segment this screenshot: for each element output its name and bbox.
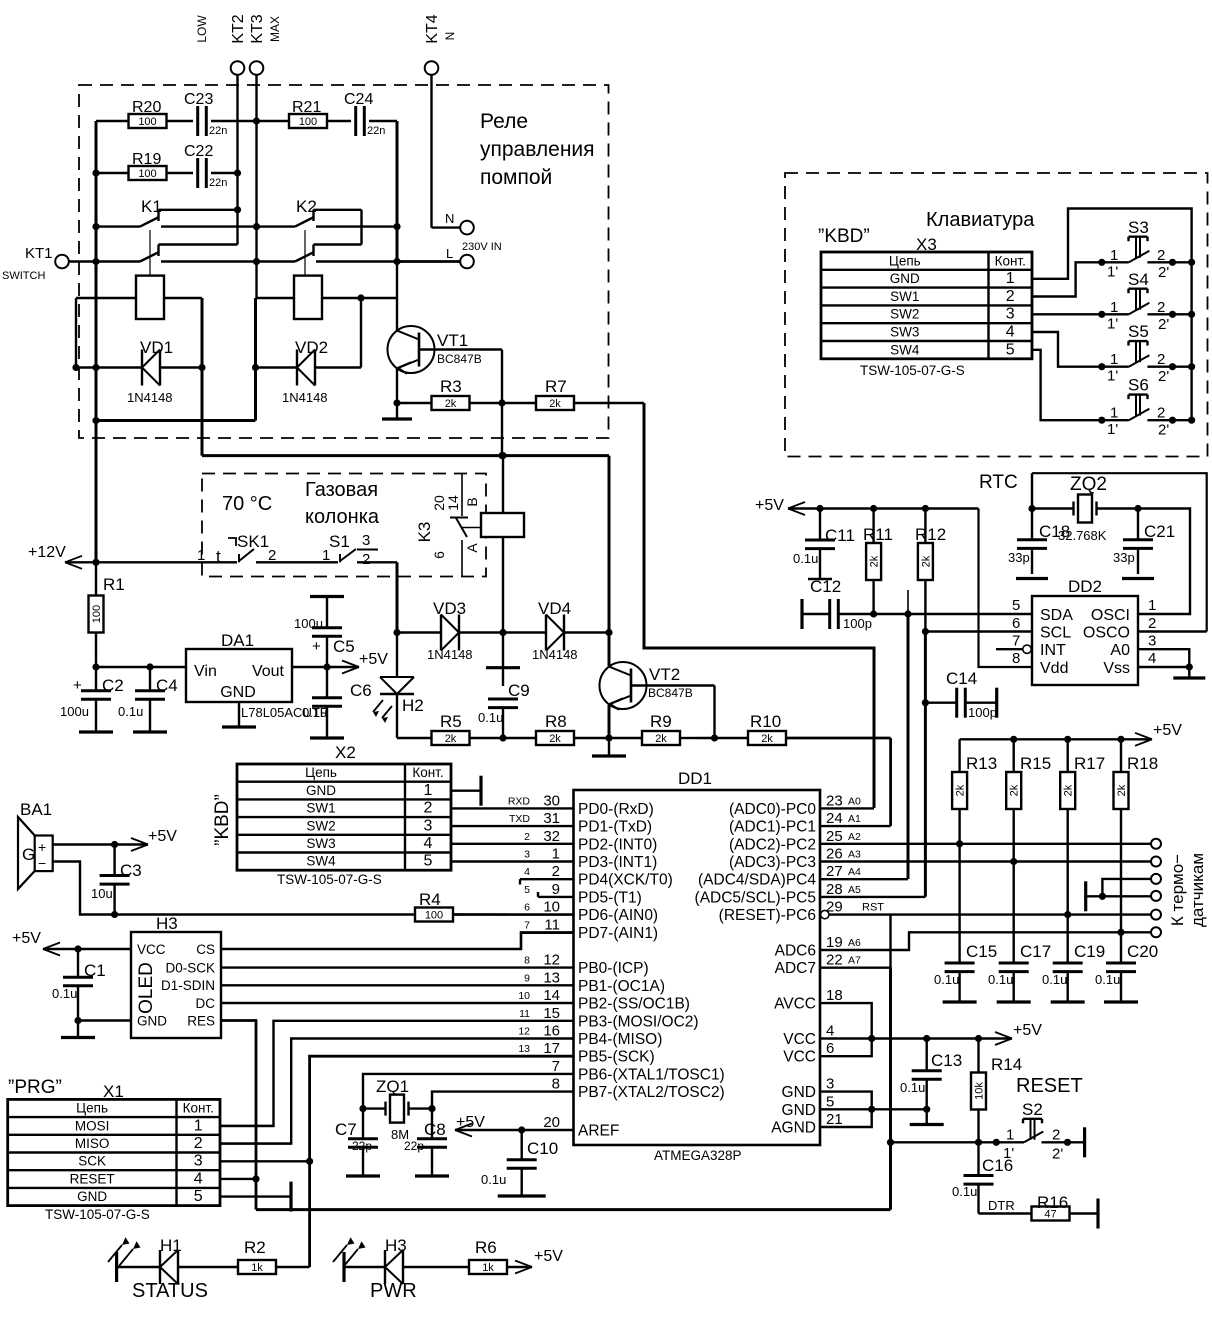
wire VD1 left	[75, 298, 77, 368]
mcu right pin labels	[695, 792, 885, 1136]
wire AREF row	[518, 1126, 573, 1133]
svg-text:PD7-(AIN1): PD7-(AIN1)	[578, 925, 658, 942]
capacitor C12	[802, 577, 874, 631]
wire Vin row	[96, 663, 186, 670]
relay contact K3	[415, 474, 481, 577]
svg-text:LOW: LOW	[195, 15, 209, 43]
capacitor C4	[118, 667, 178, 732]
svg-text:4: 4	[826, 1023, 834, 1040]
switch S6	[1098, 376, 1195, 439]
svg-text:25: 25	[826, 828, 843, 845]
led H3 pwr	[333, 1236, 468, 1302]
label KBD header	[818, 209, 1035, 254]
connector table X1	[8, 1099, 220, 1205]
svg-text:7: 7	[1012, 633, 1020, 650]
svg-text:колонка: колонка	[305, 506, 380, 528]
dd2 pin numbers	[1012, 597, 1156, 667]
label DTR	[988, 1198, 1015, 1213]
wire X3 pin4	[1032, 332, 1102, 367]
svg-text:Vdd: Vdd	[1040, 660, 1068, 677]
svg-text:C20: C20	[1127, 942, 1158, 961]
svg-text:PD5-(T1): PD5-(T1)	[578, 889, 642, 906]
svg-text:GND: GND	[782, 1084, 816, 1101]
svg-text:C19: C19	[1074, 942, 1105, 961]
svg-text:11: 11	[519, 1008, 530, 1020]
wire VT1 base bus	[498, 403, 505, 459]
wire Vout row	[292, 663, 331, 670]
resistor R8	[503, 712, 613, 745]
svg-text:A0: A0	[848, 795, 861, 807]
wire PB5 row	[306, 1056, 574, 1267]
resistor R17	[1060, 739, 1105, 963]
svg-text:KT1: KT1	[25, 245, 53, 262]
svg-text:H1: H1	[160, 1236, 182, 1255]
svg-text:D0-SCK: D0-SCK	[165, 961, 215, 976]
svg-text:20: 20	[543, 1114, 560, 1131]
resistor R18	[1114, 739, 1159, 963]
svg-text:31: 31	[543, 810, 560, 827]
svg-text:3: 3	[826, 1076, 834, 1093]
svg-text:1: 1	[1110, 405, 1118, 422]
switch S4	[1098, 270, 1195, 333]
svg-text:N: N	[445, 211, 454, 226]
svg-text:2: 2	[1148, 615, 1156, 632]
svg-text:(ADC3)-PC3: (ADC3)-PC3	[729, 854, 816, 871]
svg-text:A6: A6	[848, 937, 861, 949]
svg-text:11: 11	[544, 916, 560, 933]
wire X1 mosi	[220, 1125, 274, 1127]
mcu left pin labels	[508, 792, 725, 1139]
svg-text:GND: GND	[77, 1189, 107, 1204]
svg-text:S6: S6	[1128, 376, 1149, 395]
svg-text:0.1u: 0.1u	[302, 705, 327, 720]
capacitor C2	[60, 667, 124, 732]
wire GND bracket	[820, 1092, 875, 1127]
svg-text:PD2-(INT0): PD2-(INT0)	[578, 836, 657, 853]
svg-text:C6: C6	[350, 681, 372, 700]
svg-text:5: 5	[826, 1093, 834, 1110]
svg-text:1: 1	[194, 1117, 203, 1134]
svg-text:R4: R4	[419, 890, 441, 909]
capacitor C6	[302, 667, 372, 738]
wire speaker row	[115, 913, 415, 915]
svg-text:CS: CS	[196, 942, 215, 957]
connector table X2	[237, 764, 451, 870]
terminal KT4	[424, 14, 457, 75]
svg-text:+5V: +5V	[755, 497, 784, 514]
power flag +5V oled	[12, 930, 131, 956]
label gas column	[222, 479, 380, 528]
transistor VT1	[388, 298, 506, 407]
svg-text:BC847B: BC847B	[648, 686, 693, 700]
svg-text:3: 3	[424, 817, 433, 834]
svg-text:26: 26	[826, 846, 843, 863]
svg-text:R7: R7	[545, 377, 567, 396]
wire PB3 row	[220, 1021, 574, 1126]
svg-text:2: 2	[1157, 299, 1165, 316]
svg-text:2: 2	[1006, 288, 1015, 305]
svg-text:S5: S5	[1128, 322, 1149, 341]
svg-text:SW3: SW3	[890, 325, 919, 340]
svg-text:R5: R5	[440, 712, 462, 731]
svg-text:22n: 22n	[367, 125, 385, 137]
svg-text:L: L	[446, 246, 453, 261]
svg-text:100: 100	[138, 168, 156, 180]
power flag +5V pullups	[960, 722, 1183, 746]
svg-text:Реле: Реле	[480, 110, 528, 133]
capacitor C13	[900, 1039, 962, 1113]
svg-text:KT4: KT4	[424, 14, 441, 43]
wire xtal right	[1097, 505, 1191, 614]
svg-text:1: 1	[1148, 597, 1156, 614]
resistor R2	[238, 1238, 310, 1274]
svg-text:1: 1	[1110, 299, 1118, 316]
svg-text:PB6-(XTAL1/TOSC1): PB6-(XTAL1/TOSC1)	[578, 1066, 725, 1083]
svg-text:PB1-(OC1A): PB1-(OC1A)	[578, 978, 665, 995]
svg-text:10k: 10k	[974, 1082, 986, 1100]
svg-text:2k: 2k	[1063, 784, 1075, 796]
terminal KT3	[250, 61, 264, 75]
wire reset to X1	[256, 1208, 891, 1211]
svg-text:C9: C9	[508, 681, 530, 700]
wire BA1 plus	[53, 828, 177, 851]
ground VT1	[382, 403, 412, 419]
svg-text:100: 100	[138, 116, 156, 128]
oled module H3	[131, 914, 221, 1038]
wire PC3 to T2	[820, 858, 1151, 865]
svg-text:Цепь: Цепь	[76, 1101, 108, 1116]
wire X2 pin3	[451, 825, 574, 827]
mcu DD1 box	[574, 769, 821, 1163]
svg-text:PB7-(XTAL2/TOSC2): PB7-(XTAL2/TOSC2)	[578, 1084, 725, 1101]
svg-text:R20: R20	[132, 99, 161, 116]
svg-text:H3: H3	[385, 1236, 407, 1255]
led H1 status	[108, 1236, 238, 1302]
wire PB6 row	[363, 1074, 574, 1109]
wire X1 gnd	[220, 1182, 291, 1212]
svg-text:100u: 100u	[294, 616, 323, 631]
svg-text:R3: R3	[440, 377, 462, 396]
svg-text:2: 2	[1157, 351, 1165, 368]
svg-text:SW1: SW1	[890, 289, 919, 304]
svg-text:C12: C12	[810, 577, 841, 596]
wire R21 row	[253, 117, 397, 226]
wire R19 row	[96, 169, 241, 176]
svg-text:SW4: SW4	[890, 342, 920, 357]
svg-text:PD4(XCK/T0): PD4(XCK/T0)	[578, 872, 673, 889]
power flag +12V	[28, 544, 96, 569]
svg-text:8: 8	[1012, 650, 1020, 667]
wire reset net vertical	[887, 968, 894, 1210]
svg-text:C3: C3	[120, 861, 142, 880]
svg-text:KT3: KT3	[249, 14, 266, 43]
svg-text:C23: C23	[184, 91, 213, 108]
svg-text:2: 2	[552, 863, 560, 880]
capacitor C15	[934, 942, 997, 1002]
resistor R19	[129, 151, 167, 180]
svg-text:К термо−: К термо−	[1168, 854, 1187, 926]
svg-text:+12V: +12V	[28, 544, 66, 561]
svg-text:1: 1	[1006, 1127, 1014, 1144]
svg-text:C16: C16	[982, 1156, 1013, 1175]
svg-text:OLED: OLED	[136, 962, 157, 1014]
svg-text:100p: 100p	[968, 705, 997, 720]
svg-text:R17: R17	[1074, 754, 1105, 773]
wire VD1 right down	[201, 298, 204, 456]
svg-text:2': 2'	[1052, 1146, 1063, 1163]
svg-text:C11: C11	[825, 526, 855, 545]
svg-text:(ADC5/SCL)-PC5: (ADC5/SCL)-PC5	[695, 889, 816, 906]
svg-text:2k: 2k	[1116, 784, 1128, 796]
svg-text:1N4148: 1N4148	[532, 647, 578, 662]
wire X3 gnd rail	[1032, 209, 1192, 279]
resistor R1	[89, 562, 125, 670]
wire ADC7	[820, 915, 891, 968]
wire X2 pin2	[451, 807, 574, 809]
svg-text:DD1: DD1	[678, 769, 712, 788]
svg-text:C14: C14	[946, 669, 977, 688]
svg-text:(ADC2)-PC2: (ADC2)-PC2	[729, 836, 816, 853]
power flag +5V aref	[455, 1114, 522, 1137]
wire SCL down	[922, 632, 929, 897]
svg-text:1: 1	[552, 846, 560, 863]
wire reset row	[891, 1139, 1000, 1146]
wire PC5 scl	[820, 896, 925, 898]
diode VD2	[252, 338, 361, 405]
svg-text:5: 5	[1012, 597, 1020, 614]
wire X1 sck	[220, 1160, 310, 1162]
svg-text:SCK: SCK	[78, 1154, 106, 1169]
label X3 part	[860, 363, 965, 378]
svg-text:VCC: VCC	[137, 942, 166, 957]
svg-text:B: B	[464, 497, 480, 506]
svg-text:INT: INT	[1040, 642, 1066, 659]
svg-text:управления: управления	[480, 138, 595, 161]
svg-text:ATMEGA328P: ATMEGA328P	[654, 1148, 742, 1163]
thermo sensor terminals	[1151, 839, 1161, 938]
wire KT1 to K1	[69, 260, 96, 262]
svg-text:0.1u: 0.1u	[1042, 972, 1067, 987]
svg-text:Цепь: Цепь	[305, 765, 337, 780]
svg-text:30: 30	[543, 792, 560, 809]
svg-text:RTC: RTC	[979, 472, 1018, 493]
svg-text:6: 6	[826, 1040, 834, 1057]
label RTC	[979, 472, 1018, 493]
svg-text:RES: RES	[187, 1014, 215, 1029]
svg-text:AGND: AGND	[771, 1120, 816, 1137]
svg-text:1N4148: 1N4148	[282, 390, 328, 405]
svg-text:12: 12	[543, 952, 560, 969]
switch S2	[996, 1100, 1084, 1163]
wire X3 pin2	[1032, 262, 1102, 296]
terminal KT1	[2, 245, 69, 282]
svg-text:PD3-(INT1): PD3-(INT1)	[578, 854, 657, 871]
svg-text:GND: GND	[890, 271, 920, 286]
svg-text:A0: A0	[1110, 642, 1130, 659]
svg-text:R19: R19	[132, 151, 161, 168]
wire T3 T4 gnd	[1086, 879, 1151, 911]
capacitor C8	[404, 1109, 449, 1176]
svg-text:PWR: PWR	[370, 1280, 417, 1302]
wire X2 pin4	[451, 843, 574, 845]
svg-text:14: 14	[543, 987, 560, 1004]
svg-text:(ADC4/SDA)PC4: (ADC4/SDA)PC4	[698, 872, 816, 889]
svg-text:0.1u: 0.1u	[1095, 972, 1120, 987]
svg-text:RXD: RXD	[508, 795, 531, 807]
svg-text:H2: H2	[402, 696, 424, 715]
capacitor C22	[184, 143, 227, 189]
wire PD4 stub	[520, 879, 574, 884]
svg-text:5: 5	[524, 884, 530, 896]
svg-text:C15: C15	[966, 942, 997, 961]
svg-text:1: 1	[424, 782, 433, 799]
svg-text:R8: R8	[545, 712, 567, 731]
svg-text:A: A	[464, 543, 480, 553]
svg-text:22n: 22n	[209, 177, 227, 189]
resistor R14	[971, 1039, 1022, 1146]
svg-text:2k: 2k	[549, 398, 561, 410]
svg-text:OSCI: OSCI	[1091, 607, 1130, 624]
svg-text:3: 3	[524, 849, 530, 861]
svg-text:12: 12	[518, 1026, 530, 1038]
svg-text:1k: 1k	[482, 1262, 494, 1274]
capacitor C19	[1042, 942, 1105, 1002]
capacitor C11	[793, 509, 855, 580]
svg-text:A2: A2	[848, 831, 861, 843]
switch S3	[1098, 218, 1195, 281]
svg-text:D1-SDIN: D1-SDIN	[161, 978, 215, 993]
svg-text:9: 9	[524, 972, 530, 984]
svg-text:PB3-(MOSI/OC2): PB3-(MOSI/OC2)	[578, 1013, 699, 1030]
svg-text:C10: C10	[527, 1139, 558, 1158]
svg-text:2: 2	[1157, 405, 1165, 422]
svg-text:16: 16	[543, 1023, 560, 1040]
svg-text:2k: 2k	[1009, 784, 1021, 796]
svg-text:VCC: VCC	[783, 1031, 816, 1048]
svg-text:Vss: Vss	[1103, 660, 1130, 677]
svg-text:17: 17	[543, 1040, 560, 1057]
resistor R4	[415, 890, 574, 922]
svg-text:2k: 2k	[761, 733, 773, 745]
svg-text:13: 13	[543, 969, 560, 986]
svg-text:BA1: BA1	[20, 800, 52, 819]
svg-text:22n: 22n	[209, 125, 227, 137]
wire gnd to C13	[872, 1109, 944, 1124]
svg-text:”KBD”: ”KBD”	[212, 794, 233, 846]
svg-text:6: 6	[431, 551, 447, 559]
svg-text:A7: A7	[848, 955, 861, 967]
svg-text:+5V: +5V	[12, 930, 41, 947]
svg-text:8: 8	[552, 1076, 560, 1093]
svg-text:+: +	[38, 839, 46, 855]
wire AVCC VCC bracket	[820, 1003, 875, 1056]
svg-text:22: 22	[826, 952, 843, 969]
wire y421	[92, 262, 256, 425]
wire PC1	[820, 825, 891, 827]
svg-text:C7: C7	[335, 1120, 357, 1139]
terminal L 230V	[446, 246, 474, 268]
wire left vertical	[92, 121, 99, 562]
label PRG	[8, 1077, 124, 1101]
relay coil K1	[76, 276, 202, 319]
svg-text:2k: 2k	[445, 733, 457, 745]
svg-text:R10: R10	[750, 712, 781, 731]
svg-text:7: 7	[524, 919, 530, 931]
svg-text:STATUS: STATUS	[132, 1280, 208, 1302]
label KBD x2	[212, 794, 233, 846]
svg-text:(ADC0)-PC0: (ADC0)-PC0	[729, 801, 816, 818]
svg-text:PB0-(ICP): PB0-(ICP)	[578, 960, 649, 977]
label thermo	[1168, 853, 1207, 927]
svg-text:5: 5	[194, 1188, 203, 1205]
relay coil K3	[464, 456, 524, 633]
svg-text:1': 1'	[1107, 421, 1118, 438]
svg-text:4: 4	[524, 866, 530, 878]
svg-text:S4: S4	[1128, 270, 1149, 289]
svg-text:0.1u: 0.1u	[118, 704, 143, 719]
svg-text:R21: R21	[292, 99, 321, 116]
svg-text:X2: X2	[335, 743, 356, 762]
resistor R20	[129, 99, 167, 128]
wire KT4 vertical	[432, 75, 461, 228]
svg-text:23: 23	[826, 792, 843, 809]
power flag +5V reset	[872, 1022, 1043, 1045]
svg-text:PB4-(MISO): PB4-(MISO)	[578, 1031, 662, 1048]
wire OLED gnd row	[78, 1019, 131, 1021]
svg-text:5: 5	[424, 853, 433, 870]
wire KT2 vertical	[236, 75, 238, 210]
svg-text:4: 4	[194, 1170, 203, 1187]
svg-text:Конт.: Конт.	[995, 253, 1026, 268]
wire X2 pin1 gnd	[451, 776, 481, 806]
wire OLED D0	[221, 966, 574, 968]
svg-text:70 °C: 70 °C	[222, 493, 272, 515]
wire SDA down	[907, 590, 910, 879]
svg-text:GND: GND	[306, 783, 336, 798]
svg-text:RESET: RESET	[70, 1171, 115, 1186]
speaker BA1	[18, 800, 53, 889]
resistor R7	[502, 377, 644, 410]
svg-text:22p: 22p	[352, 1139, 372, 1153]
terminal N 230V	[445, 211, 502, 253]
svg-text:DA1: DA1	[221, 631, 254, 650]
svg-text:MOSI: MOSI	[75, 1118, 110, 1133]
capacitor C16	[952, 1142, 1013, 1213]
svg-text:TXD: TXD	[509, 813, 530, 825]
svg-text:R9: R9	[650, 712, 672, 731]
svg-text:14: 14	[445, 495, 461, 511]
capacitor C18	[1008, 509, 1048, 579]
svg-text:помпой: помпой	[480, 166, 552, 189]
svg-text:MAX: MAX	[268, 16, 282, 42]
svg-text:2: 2	[362, 551, 370, 568]
power flag +5V main	[327, 651, 388, 674]
svg-text:SW2: SW2	[890, 307, 919, 322]
svg-text:2k: 2k	[549, 733, 561, 745]
svg-text:2k: 2k	[869, 555, 881, 567]
svg-text:1': 1'	[1107, 368, 1118, 385]
svg-text:2: 2	[424, 800, 433, 817]
wire PD7 jog	[521, 932, 574, 949]
svg-text:13: 13	[518, 1043, 530, 1055]
svg-text:24: 24	[826, 810, 843, 827]
capacitor C20	[1095, 942, 1158, 1002]
svg-text:GND: GND	[137, 1014, 167, 1029]
wire A0 Vss gnd	[1138, 649, 1205, 678]
svg-text:SCL: SCL	[1040, 625, 1071, 642]
svg-text:100u: 100u	[60, 704, 89, 719]
capacitor C9	[478, 633, 530, 739]
